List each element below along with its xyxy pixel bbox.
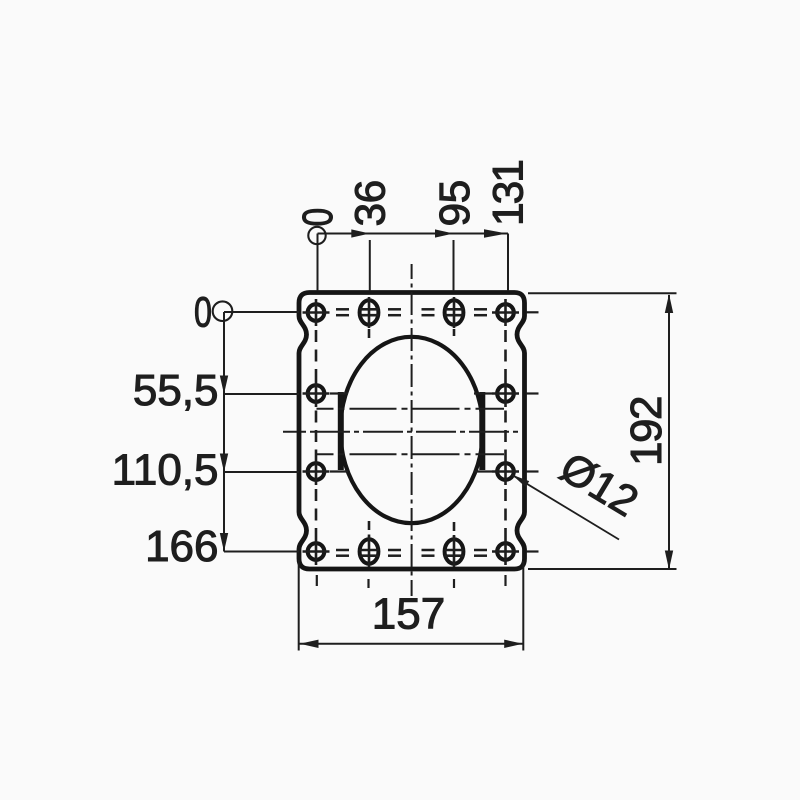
opening right flat (479, 392, 485, 470)
ticks below bottom edge (317, 575, 506, 588)
leader line dia 12 (512, 475, 619, 540)
slot bottom c1 (360, 536, 379, 567)
hole bottom-right (492, 538, 519, 565)
ticks crossing right edge (527, 312, 539, 551)
svg-text:131: 131 (486, 161, 533, 226)
hole right mid-lower (492, 458, 519, 485)
svg-text:55,5: 55,5 (133, 366, 219, 415)
top arrows (351, 229, 370, 237)
top dimension chain line (318, 234, 509, 292)
svg-text:0: 0 (294, 208, 342, 227)
hole bottom-left (303, 538, 330, 565)
flange plate outline (299, 293, 525, 570)
svg-text:110,5: 110,5 (112, 446, 219, 495)
column centerline c0 segments (316, 330, 506, 538)
double-dash marks bottom row (336, 550, 487, 556)
svg-text:0: 0 (194, 289, 212, 337)
right dimension 192 (528, 293, 677, 569)
upper chain line (317, 408, 505, 410)
hole left mid-lower (303, 458, 330, 485)
svg-text:192: 192 (622, 397, 671, 466)
bottom dimension 157 (299, 560, 524, 651)
horizontal centerline (283, 431, 520, 433)
left datum circle (213, 301, 233, 321)
vertical centerline (411, 264, 413, 596)
hole right mid-upper (492, 380, 519, 407)
slot top c2 (445, 297, 464, 328)
hole left mid-upper (303, 380, 330, 407)
central opening (340, 337, 483, 523)
slot top c1 (360, 297, 379, 328)
left dimension chain line (224, 312, 299, 552)
opening left flat (338, 392, 344, 470)
svg-text:157: 157 (372, 590, 445, 639)
svg-text:95: 95 (432, 180, 479, 226)
svg-text:36: 36 (348, 180, 395, 226)
lower chain line (317, 453, 505, 455)
hole top-right (492, 299, 519, 326)
top datum circle (308, 227, 325, 244)
svg-text:166: 166 (145, 522, 218, 571)
slot bottom c2 (445, 536, 464, 567)
hole top-left (303, 299, 330, 326)
double-dash marks top row (336, 309, 487, 315)
left arrows (220, 376, 228, 395)
row centerline stubs beside side holes (330, 394, 492, 472)
column dash c1 c2 near ellipse (369, 329, 454, 537)
